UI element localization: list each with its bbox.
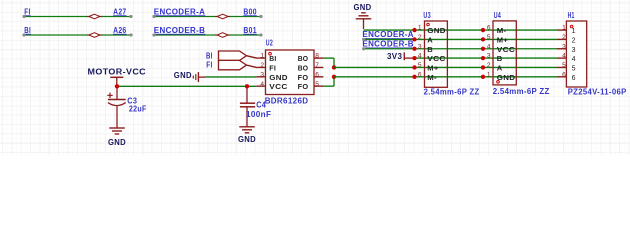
net port FI [219,60,247,69]
wire net ENCODER-A left [154,16,261,18]
svg-text:GND: GND [108,138,126,147]
wire MOTOR-VCC rail [117,85,256,87]
svg-text:5: 5 [487,34,491,41]
junction U4 pin 4 [481,47,485,51]
wire net BI [24,34,131,36]
svg-text:4: 4 [260,81,264,88]
net port BI [219,51,247,60]
svg-text:BI: BI [24,26,31,35]
svg-text:1: 1 [572,28,576,35]
U2 pin 5 FO [314,85,323,87]
junction U3 pin 3 [412,47,416,51]
svg-text:FI: FI [24,7,30,16]
power flag 3V3 [404,52,414,60]
svg-text:4: 4 [487,43,491,50]
svg-text:BI: BI [206,51,213,60]
svg-text:M-: M- [497,26,507,35]
endpoint dot row3 [362,47,365,50]
junction U4 pin 6 [481,28,485,32]
svg-text:FO: FO [298,73,309,82]
wire GND to U2 pin3 [206,76,256,78]
svg-text:A: A [497,63,503,72]
net identifier diamond ENCODER-B/B01 [215,33,230,38]
U2 pin 7 BO [314,66,323,68]
junction U4 pin 5 [481,37,485,41]
wire endpoint dots left nets [22,15,25,18]
IC U2 BDR6126D body [266,50,315,95]
wire net FI [24,16,131,18]
svg-text:ENCODER-A: ENCODER-A [154,7,206,16]
svg-text:GND: GND [238,135,256,144]
svg-text:BO: BO [298,63,309,72]
junction rail/C4 [245,84,249,88]
ground symbol under C4 [239,127,255,133]
svg-text:FI: FI [206,61,212,70]
wire U2 pin8 to pin7 row jog [323,57,334,59]
wire row3 ENCODER-B net [364,48,557,50]
svg-text:BO: BO [298,54,309,63]
wire U2 pin5 to pin6 row jog [323,85,334,87]
svg-text:A26: A26 [113,26,127,35]
junction U4 pin 2 [481,65,485,69]
wire row2 ENCODER-A net [364,38,557,40]
svg-text:6: 6 [562,71,566,78]
svg-text:2: 2 [562,34,566,41]
net identifier diamond BI/A26 [87,33,102,38]
svg-text:B00: B00 [243,7,257,16]
svg-text:4: 4 [418,53,422,60]
junction U3 pin 1 [412,28,416,32]
svg-text:BI: BI [269,54,276,63]
svg-text:6: 6 [572,75,576,82]
connector H1 body [566,21,586,87]
svg-text:100nF: 100nF [246,110,271,119]
svg-text:VCC: VCC [269,82,288,91]
svg-text:B01: B01 [243,26,257,35]
capacitor C4 [240,86,255,126]
svg-text:M+: M+ [497,35,509,44]
junction jog/M- row [332,75,336,79]
H1 pin1 marker [570,25,573,28]
U4 pin1 marker [497,81,500,84]
svg-text:FI: FI [269,63,276,72]
svg-text:5: 5 [315,81,319,88]
svg-text:GND: GND [427,26,446,35]
svg-text:ENCODER-A: ENCODER-A [362,30,414,39]
svg-text:2: 2 [260,62,264,69]
junction U4 pin 1 [481,75,485,79]
wire net ENCODER-B left [154,34,261,36]
svg-text:U3: U3 [423,11,431,20]
svg-text:3: 3 [487,53,491,60]
svg-text:M-: M- [427,73,437,82]
svg-text:2: 2 [572,37,576,44]
svg-text:1: 1 [562,25,566,32]
svg-text:1: 1 [487,71,491,78]
svg-text:GND: GND [174,71,192,80]
svg-text:GND: GND [269,73,288,82]
svg-text:5: 5 [418,62,422,69]
svg-text:2.54mm-6P ZZ: 2.54mm-6P ZZ [424,87,480,96]
svg-text:1: 1 [260,53,264,60]
svg-text:4: 4 [572,56,576,63]
svg-text:3: 3 [572,47,576,54]
svg-text:GND: GND [497,73,516,82]
svg-text:1: 1 [418,25,422,32]
svg-text:22uF: 22uF [129,105,147,114]
junction U3 pin 5 [412,65,416,69]
svg-text:A27: A27 [113,7,127,16]
svg-text:3: 3 [562,43,566,50]
svg-text:PZ254V-11-06P: PZ254V-11-06P [568,88,627,97]
svg-text:A: A [427,35,433,44]
connector U4 body [493,21,516,85]
wire row5 M+ net [334,66,557,68]
endpoint dot row2 [362,38,365,41]
junction U3 pin 6 [412,75,416,79]
svg-text:5: 5 [572,65,576,72]
ground symbol under C3 [109,128,125,134]
U2 pin 4 stub [256,85,265,87]
svg-text:ENCODER-B: ENCODER-B [362,40,414,49]
wire row6 M- net [334,76,557,78]
svg-text:M+: M+ [427,63,439,72]
net identifier diamond ENCODER-A/B00 [215,14,230,19]
junction U3 pin 4 [412,56,416,60]
wire row1 GND net [363,29,365,31]
svg-text:VCC: VCC [427,54,446,63]
U3 pin1 marker [427,23,430,26]
connector U3 body [425,21,448,87]
U2 pin 6 FO [314,76,323,78]
capacitor C3 [107,86,125,127]
svg-text:B: B [497,54,503,63]
H1 pin 3 [557,48,566,50]
junction U3 pin 2 [412,37,416,41]
svg-text:4: 4 [562,53,566,60]
svg-text:FO: FO [298,82,309,91]
ground symbol top inverted [356,13,372,19]
ground symbol rotated at U2 pin3 [193,72,206,82]
svg-text:6: 6 [315,71,319,78]
svg-text:MOTOR-VCC: MOTOR-VCC [88,68,147,77]
wire row4 3V3 net [415,57,558,59]
junction MOTOR-VCC/C3 [115,84,119,88]
svg-text:6: 6 [418,71,422,78]
svg-text:3: 3 [418,43,422,50]
svg-text:H1: H1 [568,11,575,20]
svg-text:GND: GND [354,3,372,12]
svg-text:5: 5 [562,62,566,69]
H1 pin 2 [557,38,566,40]
U2 pin 3 stub [256,76,265,78]
H1 pin 4 [557,57,566,59]
svg-text:6: 6 [487,25,491,32]
junction U4 pin 3 [481,56,485,60]
svg-text:3: 3 [260,71,264,78]
svg-text:U2: U2 [266,38,273,47]
U2 pin 8 BO [314,57,323,59]
svg-text:2.54mm-6P ZZ: 2.54mm-6P ZZ [493,87,550,96]
svg-text:2: 2 [418,34,422,41]
U2 pin1 marker [269,52,272,55]
svg-text:BDR6126D: BDR6126D [265,96,309,105]
svg-text:3V3: 3V3 [387,52,402,61]
svg-text:7: 7 [315,62,319,69]
svg-text:8: 8 [315,53,319,60]
svg-text:ENCODER-B: ENCODER-B [154,26,206,35]
svg-text:B: B [427,45,433,54]
net identifier diamond FI/A27 [87,14,102,19]
junction jog/M+ row [332,65,336,69]
H1 pin 6 [557,76,566,78]
H1 pin 1 [557,29,566,31]
svg-text:VCC: VCC [497,45,516,54]
svg-text:2: 2 [487,62,491,69]
H1 pin 5 [557,66,566,68]
power flag MOTOR-VCC [110,77,123,86]
svg-text:U4: U4 [494,11,502,20]
